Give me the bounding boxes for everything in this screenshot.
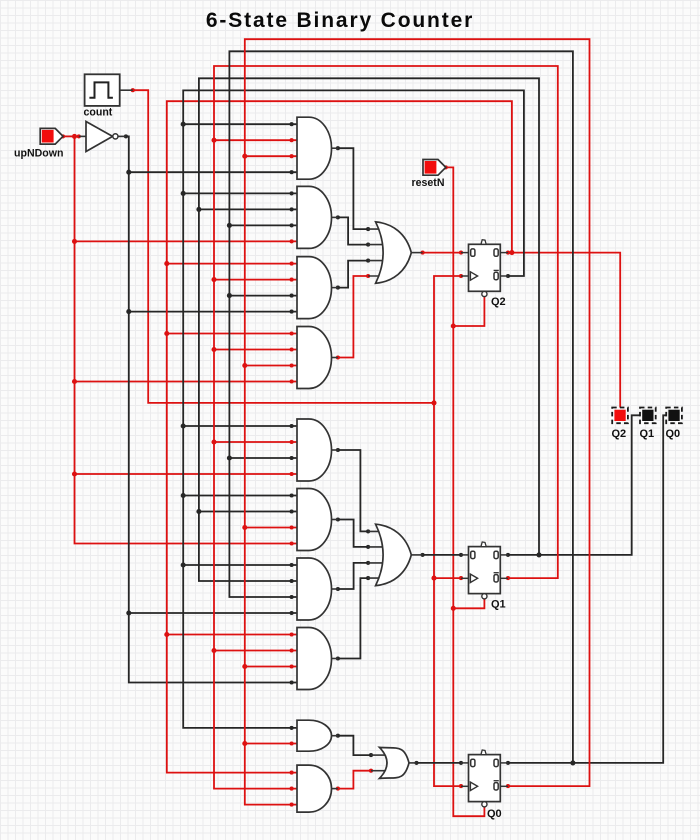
wire net Q0: branch AND3 in3: [229, 295, 297, 297]
pin AND output: [336, 146, 340, 150]
junction net !Q0: [242, 741, 247, 746]
junction net upNDown: [72, 239, 77, 244]
wire net !Q0: branch: [245, 365, 297, 367]
pin Q2 clock input: [459, 274, 463, 278]
and-gate A10: [297, 765, 332, 812]
wire AND3 out to OR1 in3: [338, 261, 368, 288]
pin OR input: [366, 545, 370, 549]
svg-text:Q0: Q0: [666, 428, 681, 440]
wire net !Q1: feedback rail: [214, 66, 558, 789]
wire net !upNDown: branch AND3 in4: [129, 311, 297, 313]
wire AND10 out to OR3 in2: [338, 771, 371, 789]
pin OR input: [366, 529, 370, 533]
junction net !Q0: [242, 154, 247, 159]
pin OR input: [366, 576, 370, 580]
pin AND output: [336, 448, 340, 452]
pin Q0 D input: [459, 761, 463, 765]
pin AND input: [290, 278, 294, 282]
wire net !Q1: branch: [214, 139, 297, 141]
junction net !Q0: [242, 363, 247, 368]
wire net Q0: branch AND5 in3: [229, 457, 297, 459]
pin AND input: [290, 154, 294, 158]
pin AND input: [290, 771, 294, 775]
wire net !Q2: branch: [183, 425, 297, 427]
junction net Q0: [227, 293, 232, 298]
and-gate A4: [297, 327, 332, 389]
wire net resetN: branch Q1 clear: [453, 599, 484, 609]
pin AND input: [290, 493, 294, 497]
wire net !Q1: branch: [214, 279, 297, 281]
svg-text:Q0: Q0: [487, 808, 502, 820]
pin Q0 clock input: [459, 784, 463, 788]
wire net count: clock rail to distribution: [133, 90, 434, 403]
wire net Q2: branch AND4 in1: [167, 333, 297, 335]
pin OR input: [366, 243, 370, 247]
flip-flop Q0: [461, 750, 508, 820]
junction net Q2: [509, 250, 514, 255]
pin AND input: [290, 239, 294, 243]
pin Q2 D input: [459, 251, 463, 255]
pin Q1 clock input: [459, 576, 463, 580]
wire net upNDown: left rail: [75, 136, 298, 543]
output pin Q0: [666, 408, 682, 441]
junction net !Q1: [211, 138, 216, 143]
wire net Q1: feedback rail: [199, 78, 539, 581]
wire OR3 out to Q0 D input: [417, 762, 462, 764]
pin AND input: [290, 170, 294, 174]
wire net Q2: branch AND3 in1: [167, 263, 297, 265]
wire net Q1: FF output to pin Q1: [508, 415, 640, 555]
pin OR input: [369, 753, 373, 757]
pin AND input: [290, 363, 294, 367]
wire net upNDown: branch AND5 in4: [75, 473, 298, 475]
or-gate O2 input stubs: [368, 531, 384, 578]
pin AND input: [290, 680, 294, 684]
wire AND9 out to OR3 in1: [338, 736, 371, 755]
junction net !Q1: [211, 648, 216, 653]
wire net Q2: branch AND8 in1: [167, 634, 297, 636]
pin AND output: [336, 355, 340, 359]
pin Q2 output: [506, 251, 510, 255]
pin AND input: [290, 207, 294, 211]
pin OR input: [366, 561, 370, 565]
svg-text:Q2: Q2: [612, 428, 627, 440]
wire net upNDown: pin to inverter: [63, 135, 79, 137]
junction net !Q2: [181, 122, 186, 127]
output pin Q2: [612, 408, 628, 441]
pin AND input: [290, 525, 294, 529]
pin inverter input: [77, 134, 81, 138]
pin OR1 output: [421, 251, 425, 255]
inverter U1: [79, 122, 126, 152]
wire AND7 out to OR2 in3: [338, 563, 368, 589]
wire net Q1: branch AND2 in2: [199, 208, 297, 210]
pin inverter output: [124, 134, 128, 138]
wire net !upNDown: branch AND7 in4: [129, 612, 297, 614]
wire net !upNDown: branch AND1 in4: [129, 171, 297, 173]
and-gate A1: [297, 117, 332, 179]
pin OR input: [369, 769, 373, 773]
svg-text:upNDown: upNDown: [14, 148, 63, 160]
or-gate O3 input stubs: [371, 755, 387, 771]
pin AND output: [336, 787, 340, 791]
wire AND4 out to OR1 in4: [338, 276, 368, 358]
junction net !upNDown: [126, 610, 131, 615]
clock component count: [84, 74, 133, 118]
wire net Q2: feedback rail: [167, 101, 512, 772]
junction net count: [431, 576, 436, 581]
pin AND output: [336, 587, 340, 591]
wire net Q0: feedback rail: [229, 51, 573, 763]
pin AND input: [290, 379, 294, 383]
junction net count: [431, 400, 436, 405]
pin AND input: [290, 579, 294, 583]
wire net upNDown: branch AND4 in4: [75, 381, 298, 383]
pin Q1 D input: [459, 553, 463, 557]
pin AND input: [290, 223, 294, 227]
junction net Q1: [536, 552, 541, 557]
or-gate O1: [376, 222, 412, 283]
pin AND input: [290, 424, 294, 428]
wire net !Q2: branch: [183, 495, 297, 497]
svg-text:Q1: Q1: [640, 428, 655, 440]
wire net !Q2: branch: [183, 123, 297, 125]
wire net !Q2: feedback rail: [183, 90, 524, 728]
junction net !Q0: [242, 525, 247, 530]
pin AND input: [290, 262, 294, 266]
wire AND6 out to OR2 in2: [338, 520, 368, 547]
junction net !Q2: [181, 562, 186, 567]
svg-text:Q1: Q1: [491, 599, 506, 611]
pin AND input: [290, 509, 294, 513]
junction net Q2: [164, 261, 169, 266]
pin AND output: [336, 215, 340, 219]
pin AND input: [290, 787, 294, 791]
pin AND input: [290, 122, 294, 126]
wire net count: clock vertical to FF clocks: [434, 276, 461, 786]
junction net Q0: [227, 223, 232, 228]
pin AND input: [290, 331, 294, 335]
pin OR input: [366, 259, 370, 263]
input pin upNDown: [14, 128, 63, 159]
junction net !Q2: [181, 191, 186, 196]
wire AND8 out to OR2 in4: [338, 578, 368, 658]
pin AND input: [290, 741, 294, 745]
pin AND input: [290, 541, 294, 545]
junction net !Q2: [181, 493, 186, 498]
pin AND input: [290, 294, 294, 298]
wire AND1 out to OR1 in1: [338, 148, 368, 229]
pin AND output: [336, 656, 340, 660]
pin OR2 output: [421, 553, 425, 557]
wire OR2 out to Q1 D input: [423, 554, 461, 556]
pin AND output: [336, 517, 340, 521]
junction net resetN: [451, 323, 456, 328]
flip-flop Q2: [461, 240, 508, 308]
junction net Q2: [164, 331, 169, 336]
or-gate O2: [376, 524, 412, 585]
output pin Q1: [640, 408, 656, 441]
pin AND input: [290, 440, 294, 444]
or-gate O1 input stubs: [368, 229, 384, 276]
and-gate A5: [297, 419, 332, 481]
junction net !upNDown: [126, 309, 131, 314]
svg-text:resetN: resetN: [412, 177, 445, 189]
pin AND input: [290, 803, 294, 807]
wire net !Q1: branch: [214, 650, 297, 652]
pin AND input: [290, 595, 294, 599]
and-gate A7: [297, 558, 332, 620]
pin AND output: [336, 734, 340, 738]
junction net Q0: [227, 455, 232, 460]
pin Q2 inverted output: [506, 274, 510, 278]
wire net Q0: branch AND2 in3: [229, 224, 297, 226]
pin AND input: [290, 310, 294, 314]
junction net !upNDown: [126, 170, 131, 175]
pin AND input: [290, 611, 294, 615]
or-gate O3: [380, 747, 410, 778]
junction net upNDown: [72, 471, 77, 476]
and-gate A3: [297, 257, 332, 319]
pin AND input: [290, 726, 294, 730]
junction net upNDown: [72, 134, 77, 139]
pin resetN output: [444, 165, 448, 169]
svg-text:6-State Binary Counter: 6-State Binary Counter: [206, 9, 474, 32]
wire net !Q0: branch: [245, 527, 297, 529]
pin upNDown output: [61, 134, 65, 138]
wire net resetN: rail to FF clears: [446, 167, 485, 816]
junction net Q1: [196, 509, 201, 514]
pin AND input: [290, 138, 294, 142]
flip-flop Q1: [461, 542, 508, 611]
pin OR3 output: [414, 761, 418, 765]
wire net count: branch to Q1 clock: [434, 577, 461, 579]
junction net Q2: [164, 632, 169, 637]
junction net !Q0: [242, 664, 247, 669]
junction net Q1: [196, 207, 201, 212]
wire net !Q2: branch: [183, 192, 297, 194]
pin AND input: [290, 472, 294, 476]
junction net !Q1: [211, 347, 216, 352]
svg-text:count: count: [84, 107, 113, 119]
and-gate A6: [297, 489, 332, 551]
pin AND input: [290, 632, 294, 636]
pin OR input: [366, 227, 370, 231]
junction net Q0: [570, 760, 575, 765]
junction net resetN: [451, 606, 456, 611]
wire net !Q0: branch: [245, 743, 297, 745]
pin AND input: [290, 648, 294, 652]
pin AND input: [290, 191, 294, 195]
wire net !Q0: feedback rail: [245, 39, 590, 804]
and-gate A8: [297, 628, 332, 690]
and-gate A2: [297, 186, 332, 248]
pin Q1 output: [506, 553, 510, 557]
pin clock output: [131, 88, 135, 92]
wire net !Q1: branch: [214, 349, 297, 351]
wire net Q1: branch AND6 in2: [199, 511, 297, 513]
wire OR1 out to Q2 D input: [423, 252, 461, 254]
wire net !Q0: branch: [245, 155, 297, 157]
svg-text:Q2: Q2: [491, 296, 506, 308]
wire net resetN: branch Q2 clear: [453, 296, 484, 326]
pin Q0 inverted output: [506, 784, 510, 788]
wire net Q2: FF output to pin Q2: [508, 253, 620, 408]
junction net upNDown: [72, 379, 77, 384]
pin AND output: [336, 286, 340, 290]
junction net !Q1: [211, 439, 216, 444]
pin AND input: [290, 456, 294, 460]
wire net Q0: FF output to pin Q0: [508, 415, 666, 763]
and-gate A9: [297, 720, 332, 751]
wire net upNDown: branch AND2 in4: [75, 240, 298, 242]
wire net !Q1: branch: [214, 441, 297, 443]
pin AND input: [290, 563, 294, 567]
input pin resetN: [412, 160, 446, 190]
wire net !Q0: branch: [245, 666, 297, 668]
pin Q1 inverted output: [506, 576, 510, 580]
pin AND input: [290, 664, 294, 668]
junction net !Q2: [181, 423, 186, 428]
pin OR input: [366, 274, 370, 278]
wire net !upNDown: rail from inverter: [126, 136, 297, 682]
junction net !Q1: [211, 277, 216, 282]
pin AND input: [290, 347, 294, 351]
wire AND2 out to OR1 in2: [338, 217, 368, 244]
wire net !Q2: branch: [183, 564, 297, 566]
pin Q0 output: [506, 761, 510, 765]
wire AND5 out to OR2 in1: [338, 450, 368, 531]
